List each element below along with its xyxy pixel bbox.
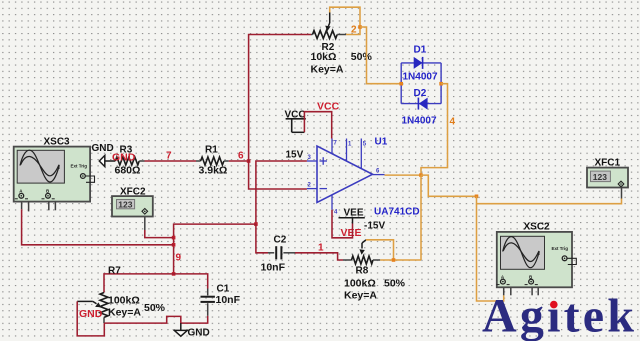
svg-text:D1: D1: [414, 45, 427, 56]
svg-text:GND: GND: [112, 152, 136, 164]
wire R8 wiper loop (orange): [366, 240, 394, 260]
wire R7C1 top rail (red): [104, 274, 208, 293]
diode D2 1N4007: [401, 88, 441, 127]
wire node6 up to R2 left: [249, 35, 311, 162]
wire VCC to pin7 (red): [304, 112, 331, 139]
svg-text:GND: GND: [188, 328, 210, 339]
svg-text:7: 7: [166, 151, 172, 162]
wire XSC3 A branch: [22, 201, 174, 245]
svg-text:Key=A: Key=A: [311, 64, 344, 76]
wire op-amp output to junction (orange): [385, 174, 422, 176]
junction R8 wiper: [392, 258, 396, 262]
svg-text:15V: 15V: [286, 150, 304, 161]
svg-text:VCC: VCC: [317, 101, 340, 113]
svg-text:R7: R7: [108, 265, 121, 276]
Agitek red i-dot: [548, 296, 558, 308]
wire node9 left rail (red): [174, 224, 256, 274]
svg-text:123: 123: [118, 200, 132, 210]
svg-text:10kΩ: 10kΩ: [311, 51, 337, 63]
frequency counter XFC2: [112, 187, 153, 217]
svg-text:R8: R8: [356, 265, 369, 276]
wire node4 down to R8 right (orange): [420, 175, 422, 260]
diode bridge side wires (blue): [401, 63, 441, 104]
svg-text:Key=A: Key=A: [344, 289, 377, 301]
op-amp U1 UA741CD: [307, 137, 420, 218]
svg-text:1N4007: 1N4007: [403, 72, 438, 83]
oscilloscope XSC3: [14, 137, 95, 212]
power symbol VCC: [285, 110, 306, 161]
junction instrument rail: [475, 195, 479, 199]
potentiometer R8: [343, 240, 406, 301]
svg-text:50%: 50%: [351, 51, 373, 63]
wire bottom rail R7 to C1 with GND bump (red): [104, 316, 207, 323]
wire XFC2 terminal branch: [145, 214, 174, 238]
wire node9 riser to op-amp pin3: [256, 161, 307, 224]
svg-text:Ext Trig: Ext Trig: [71, 163, 88, 168]
svg-text:50%: 50%: [384, 277, 406, 289]
junction node9 top: [254, 222, 258, 226]
svg-text:R1: R1: [205, 145, 218, 156]
svg-text:U1: U1: [375, 137, 388, 148]
power symbol VEE: [339, 207, 386, 231]
svg-text:680Ω: 680Ω: [115, 165, 141, 177]
svg-text:C2: C2: [274, 235, 287, 246]
junction diode left: [399, 82, 403, 86]
junction node2: [358, 25, 362, 29]
svg-text:100kΩ: 100kΩ: [108, 295, 140, 307]
ground symbol: [174, 323, 209, 338]
svg-text:Key=A: Key=A: [108, 307, 141, 319]
Agitek logo: [482, 290, 637, 341]
svg-text:-15V: -15V: [364, 220, 385, 231]
oscilloscope XSC2: [497, 222, 577, 296]
frequency counter XFC1: [587, 157, 628, 198]
wire rail down to XSC2 A (orange): [477, 204, 504, 301]
resistor R3: [115, 145, 141, 177]
svg-text:UA741CD: UA741CD: [374, 207, 420, 218]
svg-text:XFC1: XFC1: [595, 157, 621, 168]
svg-text:3.9kΩ: 3.9kΩ: [199, 165, 228, 177]
svg-text:9: 9: [176, 253, 182, 264]
junction node9 xfc2 tap: [172, 236, 176, 240]
ground connector GND (on-page connector at R3 input): [92, 143, 116, 167]
svg-text:10nF: 10nF: [261, 262, 286, 274]
wire node4 diodes to output junction (orange): [421, 84, 448, 176]
potentiometer R2: [311, 13, 373, 76]
svg-text:GND: GND: [92, 143, 114, 154]
svg-text:GND: GND: [79, 308, 103, 320]
svg-text:50%: 50%: [144, 302, 166, 314]
svg-text:100kΩ: 100kΩ: [344, 277, 376, 289]
wire rail to XFC1 (orange): [477, 196, 622, 203]
svg-text:VEE: VEE: [344, 207, 364, 218]
svg-text:4: 4: [450, 117, 456, 128]
wire R8 right to node4 (orange): [380, 259, 421, 261]
junction node9 R7C1 rail: [172, 272, 176, 276]
diode D1 1N4007: [401, 45, 441, 83]
potentiometer R7: [77, 265, 165, 323]
wire node7 R3 to R1: [139, 160, 200, 162]
capacitor C2 10nF: [261, 235, 296, 274]
wire node4 elbow to instrument rail (orange): [421, 175, 477, 196]
svg-text:10nF: 10nF: [216, 294, 241, 306]
junction diode right: [439, 82, 443, 86]
wire node6 down to op-amp pin2: [249, 161, 307, 189]
wire node6 R1 to junction: [224, 160, 249, 162]
svg-text:1N4007: 1N4007: [402, 116, 437, 127]
svg-text:Ext Trig: Ext Trig: [552, 246, 569, 251]
capacitor C1 10nF: [201, 284, 241, 316]
wire R7 wiper loop (red): [77, 301, 104, 336]
svg-text:6: 6: [238, 151, 244, 162]
junction output node4: [419, 173, 423, 177]
wire node1 C2 to R8 (red): [295, 253, 343, 260]
svg-text:Agitek: Agitek: [482, 290, 637, 341]
resistor R1: [199, 145, 228, 177]
wire node2 R2 wiper loop (orange): [330, 7, 360, 34]
junction node9 xsc3 tap: [172, 243, 176, 247]
wire node9 down to C2 (red): [256, 224, 268, 253]
wire VEE to pin4 (red): [332, 210, 353, 238]
svg-text:D2: D2: [414, 88, 427, 99]
junction node6: [247, 159, 251, 163]
svg-text:123: 123: [593, 172, 607, 182]
svg-text:2: 2: [351, 25, 357, 36]
svg-text:1: 1: [318, 243, 324, 254]
wire node2 to diode network (orange): [360, 27, 401, 84]
